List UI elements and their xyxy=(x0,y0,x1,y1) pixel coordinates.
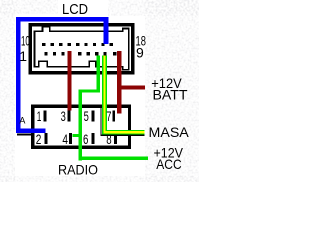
svg-text:5: 5 xyxy=(84,108,89,124)
svg-text:2: 2 xyxy=(36,131,42,147)
svg-text:4: 4 xyxy=(62,131,68,147)
svg-text:1: 1 xyxy=(19,48,27,64)
svg-text:9: 9 xyxy=(136,44,144,60)
svg-text:MASA: MASA xyxy=(149,124,190,140)
svg-text:A: A xyxy=(19,116,25,126)
svg-text:10: 10 xyxy=(21,32,30,48)
svg-text:6: 6 xyxy=(83,131,89,147)
svg-text:LCD: LCD xyxy=(62,1,88,18)
svg-text:BATT: BATT xyxy=(153,86,188,102)
svg-text:7: 7 xyxy=(106,108,111,124)
svg-text:ACC: ACC xyxy=(156,156,181,172)
svg-text:RADIO: RADIO xyxy=(58,162,98,178)
svg-text:3: 3 xyxy=(61,108,66,124)
svg-text:1: 1 xyxy=(37,108,42,124)
svg-text:8: 8 xyxy=(106,131,112,147)
